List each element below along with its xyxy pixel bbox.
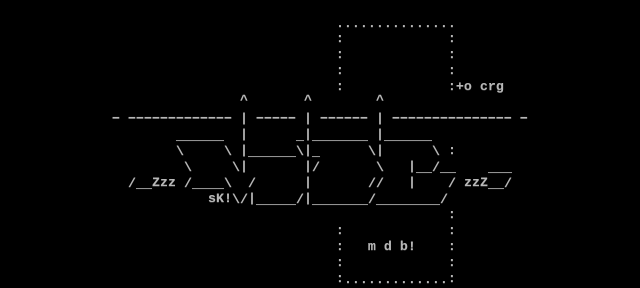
structure mid walls	[184, 161, 192, 176]
structure upper walls	[176, 145, 184, 160]
structure roofs	[176, 129, 224, 144]
carets above poles	[240, 94, 248, 109]
upper dotted box top edge	[336, 17, 456, 32]
Zzz ledge and zzZ ledge	[128, 177, 136, 192]
